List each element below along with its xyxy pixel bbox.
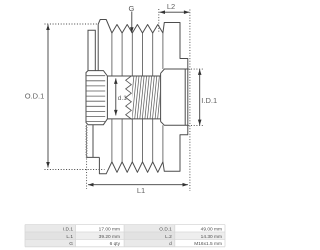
- groove valley edge lines (bottom): [112, 119, 163, 162]
- svg-text:O.D.1: O.D.1: [159, 226, 172, 232]
- knurled thread block outline (left hub): [86, 71, 107, 125]
- knurl horizontal lines: [86, 76, 105, 122]
- svg-text:6 qty: 6 qty: [110, 241, 121, 247]
- rubber boot upper rectangle: [88, 30, 95, 70]
- svg-text:L2: L2: [167, 2, 175, 11]
- nose cylinder (inner race): [161, 69, 188, 125]
- svg-text:M16x1.5 mm: M16x1.5 mm: [194, 241, 222, 247]
- svg-text:49.00 mm: 49.00 mm: [201, 226, 222, 232]
- groove count leader G: [131, 12, 133, 33]
- dimension L.1: extension lines (dotted): [87, 10, 190, 192]
- svg-text:G: G: [69, 241, 73, 247]
- rubber boot lower part: inner edge and bottom edge: [86, 125, 99, 158]
- threaded bore rectangle: [107, 76, 160, 119]
- specification table background cells: [25, 225, 76, 232]
- svg-text:39.20 mm: 39.20 mm: [99, 234, 120, 240]
- svg-text:I.D.1: I.D.1: [201, 96, 217, 105]
- svg-text:14.30 mm: 14.30 mm: [201, 234, 222, 240]
- svg-text:O.D.1: O.D.1: [25, 91, 45, 100]
- dimension O.D.1: extension lines (dotted): [45, 24, 105, 170]
- dimension O.D.1: dimension line with arrowheads: [47, 25, 49, 168]
- dimension L.1: dimension line with arrowheads: [88, 184, 188, 186]
- svg-text:I.D.1: I.D.1: [63, 226, 73, 232]
- dimension d.1: double arrow inside bore: [115, 78, 117, 115]
- dimension I.D.1: dimension line with arrowheads: [199, 69, 201, 125]
- dimension L.2: extension line (dotted): [158, 9, 160, 33]
- svg-text:G: G: [128, 4, 134, 13]
- svg-text:d.1: d.1: [118, 95, 127, 102]
- svg-text:17.00 mm: 17.00 mm: [99, 226, 120, 232]
- specification table grid lines: [25, 225, 225, 247]
- dimension I.D.1: extension lines (dashed): [188, 69, 203, 125]
- rubber boot lower part: serrated left edge: [86, 125, 87, 157]
- internal thread profile zigzag: [126, 76, 132, 119]
- pulley rim outline with 6 poly-V belt grooves: [98, 20, 188, 174]
- svg-text:L.2: L.2: [165, 234, 172, 240]
- groove valley edge lines (top): [112, 33, 163, 76]
- svg-text:L1: L1: [137, 186, 145, 195]
- svg-text:d: d: [169, 241, 172, 247]
- svg-text:L.1: L.1: [66, 234, 73, 240]
- dimension L.2: dimension line with arrowheads: [160, 11, 190, 13]
